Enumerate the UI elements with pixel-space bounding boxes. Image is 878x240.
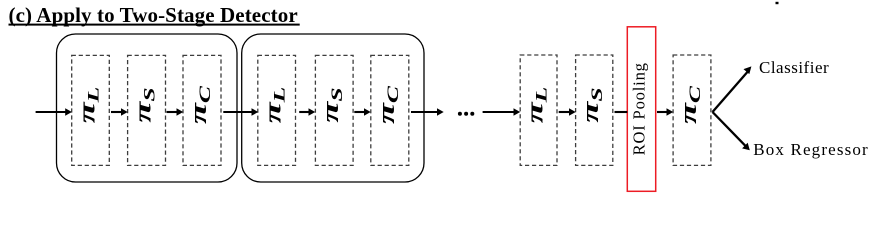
svg-text:πS: πS xyxy=(129,87,158,122)
arrow pi_L to pi_S (stage 2) xyxy=(299,111,310,113)
ellipsis dots xyxy=(458,112,462,116)
dashed box pi_C (final stage) xyxy=(673,55,711,165)
arrowhead to Classifier xyxy=(744,66,752,74)
stray period dot top right xyxy=(776,2,779,4)
input arrow wire xyxy=(36,111,67,113)
svg-text:πC: πC xyxy=(372,85,401,124)
wire pi_S to ROI Pooling xyxy=(615,111,628,113)
svg-text:πL: πL xyxy=(521,87,550,124)
arrow pi_L to pi_S (final) xyxy=(559,111,571,113)
label pi_L (final stage) xyxy=(521,87,550,124)
branch wire to Classifier xyxy=(713,72,748,112)
svg-text:(c) Apply to Two-Stage Detecto: (c) Apply to Two-Stage Detector xyxy=(9,3,298,27)
label pi_S (stage 1) xyxy=(129,87,158,122)
label pi_S (final stage) xyxy=(576,87,605,122)
label pi_L (stage 2) xyxy=(259,87,288,124)
arrow pi_S to pi_C (stage 1) xyxy=(167,111,179,113)
label pi_C (stage 2) xyxy=(372,85,401,124)
branch wire to Box Regressor xyxy=(713,112,747,146)
arrow stage 1 to stage 2 xyxy=(223,111,253,113)
dashed box pi_S (final stage) xyxy=(576,55,613,165)
dashed box pi_L (stage 2) xyxy=(258,55,296,165)
svg-text:πC: πC xyxy=(674,85,703,124)
dashed box pi_C (stage 2) xyxy=(371,55,409,165)
arrowhead to Box Regressor xyxy=(742,143,750,151)
label pi_C (stage 1) xyxy=(184,85,213,124)
svg-text:πL: πL xyxy=(259,87,288,124)
arrow stage 2 to ellipsis xyxy=(411,111,439,113)
svg-text:πS: πS xyxy=(576,87,605,122)
svg-text:ROI Pooling: ROI Pooling xyxy=(630,62,649,155)
dashed box pi_L (stage 1) xyxy=(72,55,110,165)
input arrowhead xyxy=(65,108,72,116)
svg-text:πL: πL xyxy=(73,87,102,124)
dashed box pi_S (stage 1) xyxy=(128,55,166,165)
stage container 2 xyxy=(242,34,424,182)
label pi_C (final stage) xyxy=(674,85,703,124)
label pi_L (stage 1) xyxy=(73,87,102,124)
label pi_S (stage 2) xyxy=(316,87,345,122)
svg-text:πC: πC xyxy=(184,85,213,124)
svg-text:Box Regressor: Box Regressor xyxy=(753,140,869,159)
arrow ROI Pooling to pi_C xyxy=(657,111,668,113)
ROI Pooling red box xyxy=(627,27,655,192)
title underline xyxy=(9,24,300,26)
dashed box pi_C (stage 1) xyxy=(183,55,221,165)
svg-text:πS: πS xyxy=(316,87,345,122)
svg-text:Classifier: Classifier xyxy=(759,58,829,77)
ROI Pooling label xyxy=(630,62,649,155)
arrow pi_L to pi_S (stage 1) xyxy=(111,111,123,113)
stage container 1 xyxy=(57,34,238,182)
arrow pi_S to pi_C (stage 2) xyxy=(354,111,365,113)
dashed box pi_S (stage 2) xyxy=(315,55,353,165)
dashed box pi_L (final stage) xyxy=(520,55,557,165)
arrow ellipsis to final pi_L xyxy=(483,111,515,113)
